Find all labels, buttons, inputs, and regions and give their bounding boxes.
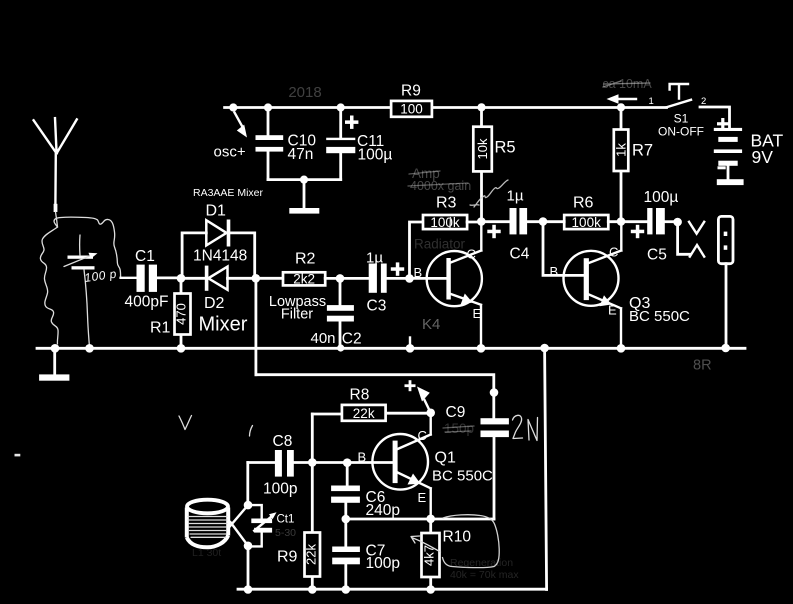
wire R2 to C3: [325, 277, 369, 280]
trimmer Ct1 leads: [248, 505, 262, 546]
svg-text:400pF: 400pF: [125, 294, 169, 311]
label R6: [573, 195, 594, 212]
node ground osc box: [540, 344, 549, 353]
pencil check mark left: [179, 416, 192, 430]
C5 plus sign: [631, 225, 644, 238]
variable capacitor in blob: [64, 235, 98, 348]
wire jack to ground rail: [725, 264, 728, 349]
capacitor C10: [256, 108, 284, 180]
node R7 top: [617, 103, 625, 111]
svg-text:osc+: osc+: [214, 144, 246, 161]
wire C3 to Q2 base: [387, 277, 447, 280]
wire blob to C1: [121, 277, 137, 279]
svg-text:2018: 2018: [288, 84, 321, 101]
hand-drawn blob outline: [40, 217, 120, 344]
label Lowpass Filter: [269, 294, 326, 323]
ground antenna: [39, 374, 69, 380]
transistor Q2 circle: [427, 251, 482, 306]
pencil scribble near C4: [470, 180, 508, 207]
svg-text:E: E: [473, 306, 482, 321]
crossed wires coil to trimmer: [229, 505, 248, 546]
erased text ca 10mA: [602, 77, 652, 91]
node C6 tap: [343, 458, 352, 467]
resistor R2: [283, 271, 325, 286]
transistor Q1 circle: [372, 434, 428, 490]
svg-text:C8: C8: [273, 433, 293, 450]
capacitor C9: [481, 418, 509, 519]
svg-text:8R: 8R: [693, 358, 712, 374]
svg-text:R8: R8: [350, 387, 370, 404]
current arrow: [607, 94, 637, 103]
svg-text:S1: S1: [674, 112, 689, 126]
label 1u C4: [507, 188, 530, 263]
label S1 ON-OFF: [658, 112, 704, 139]
transistor Q2 emitter: [451, 294, 481, 349]
svg-text:C1: C1: [135, 248, 155, 265]
label RA3AAE Mixer: [193, 187, 264, 199]
ground rail: [37, 347, 745, 350]
svg-text:100µ: 100µ: [644, 189, 679, 206]
label 40n C2: [311, 330, 362, 347]
ground battery: [717, 179, 744, 185]
svg-text:1µ: 1µ: [366, 250, 383, 267]
svg-text:Ct1: Ct1: [277, 514, 295, 526]
capacitor C2: [327, 278, 354, 348]
node bottom R10: [426, 585, 435, 594]
node C4 R6: [539, 217, 548, 226]
trimmer Ct1 plates: [251, 519, 272, 533]
jack tip contact: [689, 222, 704, 234]
wire antenna into tuning blob: [56, 212, 58, 227]
transistor Q2 base bar: [446, 258, 450, 300]
svg-text:B: B: [414, 265, 423, 280]
C4 plus sign: [487, 225, 500, 238]
svg-text:47n: 47n: [288, 146, 314, 163]
svg-text:R2: R2: [295, 251, 316, 268]
diode D2: [205, 266, 228, 291]
svg-text:BC 550C: BC 550C: [432, 468, 493, 485]
capacitor C8: [248, 450, 294, 477]
svg-text:RA3AAE Mixer: RA3AAE Mixer: [193, 187, 264, 199]
svg-text:22k: 22k: [303, 544, 318, 565]
switch S1 actuator: [670, 84, 688, 99]
wire mixer to oscillator: [254, 278, 257, 374]
label R7: [632, 142, 653, 160]
transistor Q1 emitter: [398, 473, 431, 519]
svg-text:R5: R5: [495, 139, 516, 157]
erased text 150p: [443, 421, 474, 436]
svg-text:C: C: [609, 245, 618, 260]
node ground stub: [406, 338, 415, 353]
wire top supply rail: [225, 106, 667, 109]
label osc+: [214, 144, 246, 161]
svg-text:C3: C3: [367, 298, 387, 315]
label R8: [350, 387, 370, 404]
svg-text:5-30: 5-30: [275, 527, 296, 539]
label R9 top: [401, 83, 421, 100]
capacitor C5: [647, 208, 665, 234]
node ground varcap: [85, 344, 94, 353]
svg-text:40k = 70k max: 40k = 70k max: [450, 569, 519, 581]
svg-text:C: C: [467, 247, 476, 262]
node bottom C7: [342, 585, 351, 594]
wire R3 left leg: [410, 222, 424, 278]
label R3: [436, 195, 457, 212]
svg-text:R10: R10: [443, 529, 472, 546]
erased label under coil: [192, 547, 221, 559]
battery stem: [727, 166, 730, 179]
handwritten plus: [405, 380, 416, 391]
node C10 top: [264, 103, 272, 111]
resistor R9 top: [391, 101, 432, 117]
resistor R9 bottom: [303, 533, 320, 577]
svg-text:Filter: Filter: [281, 307, 313, 323]
label C11 100u: [357, 133, 392, 164]
ground top: [289, 208, 319, 214]
erased label K4: [422, 316, 440, 333]
handwritten 2N: [513, 415, 538, 440]
collector plus annotation arrow: [417, 387, 431, 413]
wire tank to bottom rail: [247, 546, 250, 590]
battery BAT plates: [714, 128, 742, 166]
label 100u C5: [644, 189, 679, 264]
transistor Q1 collector: [398, 413, 431, 449]
wire C10 C11 join: [268, 180, 341, 208]
switch pin 2: [701, 96, 706, 107]
wire C4 node to Q3 base: [543, 222, 584, 276]
node bottom R9b: [308, 585, 317, 594]
jack plug body: [718, 216, 733, 263]
capacitor C11: [326, 108, 355, 180]
svg-text:C9: C9: [446, 404, 466, 421]
label Mixer: [199, 314, 248, 336]
coil L pictorial: [187, 500, 228, 548]
label D2: [204, 295, 225, 312]
wire R9b column: [311, 414, 314, 590]
wire oscillator top line: [256, 375, 494, 419]
resistor R5: [473, 108, 492, 222]
svg-text:1: 1: [649, 96, 654, 107]
node Q1 emitter R10: [426, 515, 435, 524]
svg-text:Mixer: Mixer: [199, 314, 248, 336]
wire R3 to node: [467, 221, 481, 224]
svg-text:C4: C4: [510, 246, 530, 263]
node ground jack: [721, 344, 730, 353]
svg-text:1µ: 1µ: [507, 188, 524, 205]
Q2 pin labels B C E: [414, 247, 482, 322]
svg-text:100: 100: [400, 102, 423, 117]
svg-text:100p: 100p: [263, 481, 297, 498]
capacitor C6: [331, 463, 360, 520]
label BAT 9V: [751, 131, 784, 168]
svg-text:R9: R9: [277, 549, 298, 566]
node ground Q2 emitter: [477, 344, 486, 353]
node Q1 collector: [426, 409, 435, 418]
svg-text:2k2: 2k2: [293, 271, 315, 286]
node R5 top: [477, 103, 485, 111]
Q1 pin labels B C E: [358, 428, 427, 505]
resistor R8: [342, 405, 386, 421]
oscillator box right edge: [545, 348, 547, 589]
svg-text:1k: 1k: [614, 143, 629, 157]
svg-text:100k: 100k: [572, 215, 602, 230]
node ground antenna: [51, 344, 60, 353]
diode D1: [206, 220, 230, 247]
erased text Amp 4000x gain: [408, 166, 471, 193]
svg-text:9V: 9V: [752, 147, 774, 167]
svg-text:D1: D1: [206, 203, 227, 220]
label C10 47n: [288, 133, 317, 164]
osc+ annotation arrow: [235, 113, 248, 138]
node ground C2: [337, 344, 344, 351]
capacitor C1: [137, 265, 158, 292]
label R9 bottom: [277, 549, 298, 566]
svg-text:R7: R7: [632, 142, 653, 160]
svg-text:R6: R6: [573, 195, 594, 212]
resistor R10: [422, 519, 440, 590]
svg-text:D2: D2: [204, 295, 225, 312]
resistor R6: [564, 215, 608, 230]
wire D1 branch: [182, 233, 255, 278]
svg-text:C: C: [418, 428, 427, 443]
label 1N4148: [193, 248, 247, 265]
wire bottom rail: [238, 588, 547, 591]
erased label 8R: [693, 358, 712, 374]
svg-text:100k: 100k: [430, 215, 460, 230]
C11 plus sign: [345, 116, 358, 129]
erased text 2018: [288, 84, 321, 101]
pencil mark above C8: [250, 426, 253, 437]
svg-text:Regeneration: Regeneration: [450, 557, 513, 569]
svg-text:R1: R1: [150, 320, 171, 337]
svg-text:E: E: [418, 490, 427, 505]
node osc+ tap on rail: [229, 103, 237, 111]
svg-text:K4: K4: [422, 316, 440, 333]
stray mark left: [15, 454, 21, 457]
label R5: [495, 139, 516, 157]
pencil arrow at R10: [411, 536, 441, 552]
battery BAT plus: [717, 118, 729, 130]
handwritten 100p: [83, 267, 117, 285]
node tank bottom: [244, 542, 253, 551]
label C7 100p: [366, 543, 400, 573]
svg-text:C5: C5: [647, 247, 667, 264]
wire emitter row: [346, 518, 494, 521]
battery minus sign: [718, 166, 726, 169]
wire C8 down to tank: [246, 463, 249, 506]
label C1 400pF: [125, 248, 169, 311]
svg-text:Radiator: Radiator: [414, 237, 466, 252]
wire D2 row: [181, 277, 283, 280]
node tank top: [244, 501, 253, 510]
svg-text:100p: 100p: [366, 555, 400, 572]
resistor R3: [423, 215, 467, 230]
capacitor C3: [369, 264, 387, 293]
svg-text:B: B: [550, 264, 559, 279]
erased text regeneration: [450, 557, 519, 581]
node C6 C7: [342, 515, 351, 524]
Q3 pin labels B C E: [550, 245, 619, 318]
label R1: [150, 320, 171, 337]
node R9b tap: [308, 458, 317, 467]
svg-text:470: 470: [174, 303, 189, 325]
ground stem antenna: [53, 348, 56, 374]
node C9 top: [490, 388, 499, 397]
node ground Q3 emitter: [617, 344, 626, 353]
node ground R1: [177, 344, 186, 353]
label C6 240p: [366, 489, 400, 519]
transistor Q2 collector: [451, 222, 482, 263]
transistor Q3 base bar: [584, 258, 589, 300]
label C9: [446, 404, 466, 421]
capacitor C4: [481, 208, 543, 234]
node R3 left on base wire: [405, 274, 414, 283]
label C8 100p: [263, 433, 297, 498]
transistor Q1 base bar: [393, 441, 398, 484]
resistor R1: [174, 278, 191, 348]
node C11 top: [337, 103, 345, 111]
wire R6 leads: [543, 220, 647, 223]
svg-text:1N4148: 1N4148: [193, 248, 247, 265]
wire C5 to jack: [665, 220, 678, 223]
svg-text:ON-OFF: ON-OFF: [658, 125, 704, 139]
wire Q1 base row: [294, 461, 393, 464]
wire switch to battery: [700, 107, 730, 128]
node mixer right: [252, 274, 261, 283]
node jack tap: [673, 218, 682, 227]
svg-text:40n: 40n: [311, 330, 336, 347]
label Q3 BC550C: [629, 295, 690, 325]
svg-text:Q1: Q1: [435, 450, 456, 467]
switch S1 blade: [667, 100, 692, 108]
erased text under Ct1: [275, 527, 296, 539]
pencil blob around R10: [443, 515, 500, 568]
svg-text:L1 30t: L1 30t: [192, 547, 221, 559]
svg-text:2: 2: [701, 96, 706, 107]
node C10 C11 join: [300, 176, 308, 184]
node C1 R1 diode: [177, 274, 186, 283]
node bottom Ct1: [244, 585, 253, 594]
node R6 R7 collector: [617, 217, 626, 226]
svg-text:100µ: 100µ: [358, 147, 393, 164]
wire R8 row: [312, 412, 430, 416]
svg-text:B: B: [358, 450, 367, 465]
label D1: [206, 203, 227, 220]
svg-text:240p: 240p: [366, 502, 400, 519]
svg-text:150p: 150p: [444, 421, 474, 436]
svg-text:E: E: [608, 303, 617, 318]
wire C1 to mixer node: [157, 276, 181, 279]
transistor Q3 circle: [564, 251, 619, 306]
label 1u C3: [366, 250, 386, 315]
transistor Q3 collector: [589, 222, 621, 264]
jack sleeve contact: [678, 222, 705, 257]
resistor R7: [614, 108, 629, 222]
svg-text:R9: R9: [401, 83, 421, 100]
antenna: [34, 118, 77, 212]
svg-text:22k: 22k: [353, 406, 375, 421]
capacitor C7: [332, 519, 360, 590]
svg-text:C2: C2: [342, 330, 362, 347]
node C2 tap: [336, 274, 345, 283]
node R3 R5 C4 collector: [477, 217, 486, 226]
trimmer Ct1 arrow: [254, 512, 276, 530]
label R2: [295, 251, 316, 268]
svg-text:R3: R3: [436, 195, 457, 212]
transistor Q3 emitter: [589, 295, 621, 349]
svg-text:10k: 10k: [475, 138, 490, 159]
svg-text:BC 550C: BC 550C: [629, 308, 690, 325]
label Ct1: [277, 514, 295, 526]
erased text Radiator: [414, 237, 466, 252]
switch pin 1: [649, 96, 654, 107]
label Q1 BC550C: [432, 450, 493, 485]
C3 plus sign: [391, 262, 404, 275]
label R10: [443, 529, 472, 546]
